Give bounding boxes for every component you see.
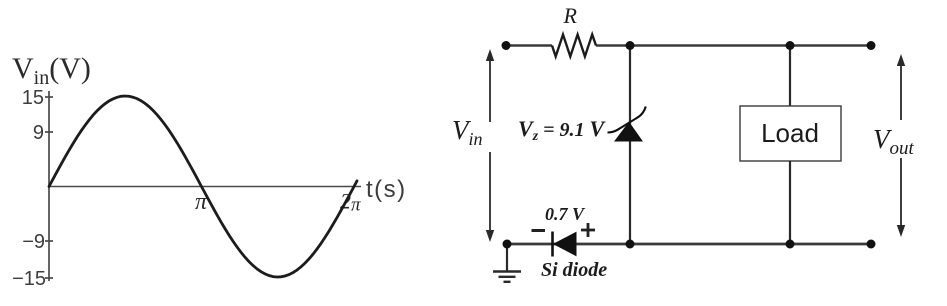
Vout down arrow: [897, 158, 905, 237]
svg-text:R: R: [563, 3, 578, 28]
tick -15: [45, 277, 53, 279]
node top zener junction: [626, 41, 635, 50]
ground stub wire: [506, 244, 508, 272]
svg-text:Vin(V): Vin(V): [12, 52, 91, 89]
node bottom zener junction: [626, 240, 635, 249]
Vin down arrow: [486, 152, 494, 242]
svg-text:0.7 V: 0.7 V: [545, 204, 586, 224]
wire top rail left segment: [506, 44, 552, 47]
diode D2 triangle: [554, 233, 576, 256]
y-axis: [48, 91, 50, 281]
node bottom-right: [867, 240, 876, 249]
tick +15: [45, 96, 53, 98]
node bottom load junction: [786, 240, 795, 249]
svg-text:−9: −9: [22, 231, 45, 253]
svg-text:9: 9: [33, 122, 44, 144]
wire top rail right segment: [596, 44, 871, 47]
node bottom-left: [503, 240, 512, 249]
load box: [740, 106, 841, 161]
node top-right: [867, 41, 876, 50]
sine curve: [49, 96, 357, 277]
wire zener branch vertical: [629, 46, 631, 245]
zener diode D1 triangle: [615, 123, 642, 142]
tick +9: [45, 131, 53, 133]
diode D2 cathode bar: [551, 232, 554, 257]
node top-left: [502, 41, 511, 50]
label minus: [532, 229, 546, 232]
svg-text:−15: −15: [12, 268, 46, 290]
Vout up arrow: [897, 54, 905, 120]
svg-text:t(s): t(s): [366, 176, 407, 203]
resistor R1 zigzag: [552, 35, 596, 57]
svg-text:Load: Load: [761, 118, 819, 148]
zener diode D1 cathode bar: [608, 107, 646, 133]
svg-text:15: 15: [22, 87, 44, 109]
wire load branch lower: [789, 161, 791, 244]
node top load junction: [786, 41, 795, 50]
label plus: [581, 223, 595, 237]
tick -9: [45, 240, 53, 242]
svg-text:Si diode: Si diode: [541, 259, 607, 281]
wire bottom rail: [507, 243, 871, 246]
ground symbol: [493, 272, 521, 282]
Vin up arrow: [486, 49, 494, 122]
x-axis: [49, 186, 361, 188]
svg-text:Vz = 9.1 V: Vz = 9.1 V: [518, 116, 607, 144]
wire load branch upper: [789, 46, 791, 107]
